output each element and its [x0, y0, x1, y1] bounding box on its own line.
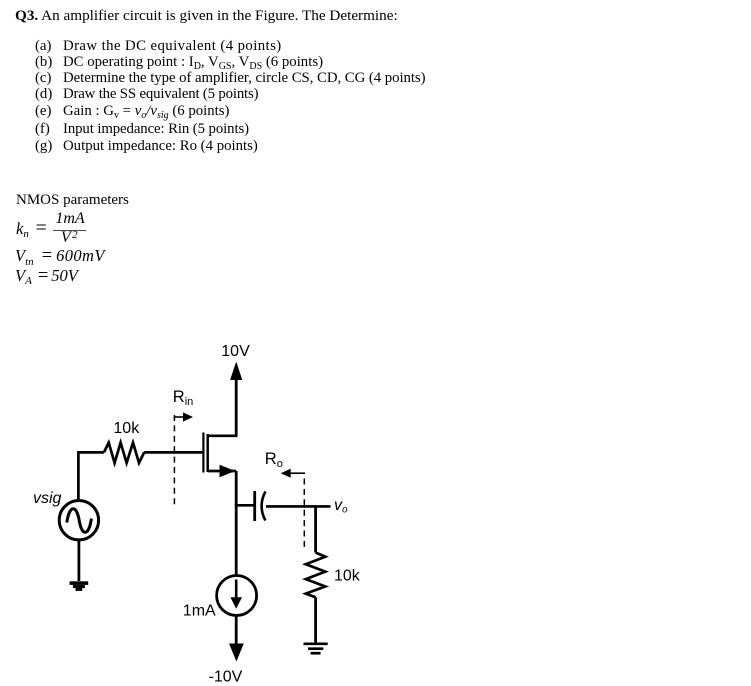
- wire vsig to ground: [78, 540, 81, 581]
- svg-text:10V: 10V: [221, 343, 250, 360]
- capacitor C1: [255, 491, 266, 521]
- wire gate left segment with corner down to vsig: [78, 452, 104, 500]
- svg-text:vsig: vsig: [33, 490, 62, 507]
- svg-text:Ro: Ro: [265, 450, 283, 470]
- equation Vtn = 600mV: [15, 246, 105, 267]
- ground vsig: [70, 581, 89, 591]
- wire resistor to gate: [144, 451, 202, 454]
- wire resistor to ground: [314, 597, 317, 643]
- wire VDD supply with up arrow: [230, 362, 242, 436]
- current source I1 1mA: [183, 576, 257, 620]
- wire output node down to resistor: [314, 506, 317, 552]
- wire current source to VSS with down arrow: [229, 616, 244, 662]
- wire source down to current source: [235, 471, 238, 576]
- svg-text:-10V: -10V: [209, 669, 243, 686]
- equation VA = 50V: [15, 266, 78, 287]
- resistor R1 10k gate: [104, 420, 144, 463]
- NMOS parameters heading: [16, 192, 129, 209]
- ground output earth symbol: [304, 644, 328, 653]
- node Ro with arrow and dashed line: [265, 450, 305, 550]
- wire source to capacitor: [235, 504, 254, 507]
- list items a-g: [35, 38, 535, 155]
- svg-text:10k: 10k: [113, 420, 140, 437]
- equation kn = 1mA/V^2: [16, 219, 29, 239]
- resistor R2 10k output: [306, 553, 361, 598]
- transistor Q1 NMOS: [203, 433, 237, 478]
- title Q3: [15, 7, 398, 25]
- svg-text:1mA: 1mA: [183, 603, 216, 620]
- wire capacitor to output node: [266, 505, 331, 508]
- svg-text:10k: 10k: [334, 568, 361, 585]
- svg-text:vo: vo: [334, 497, 348, 516]
- node Rin with arrow and dashed line: [173, 388, 193, 508]
- source vsig sine generator: [33, 490, 99, 540]
- svg-text:Rin: Rin: [173, 388, 193, 408]
